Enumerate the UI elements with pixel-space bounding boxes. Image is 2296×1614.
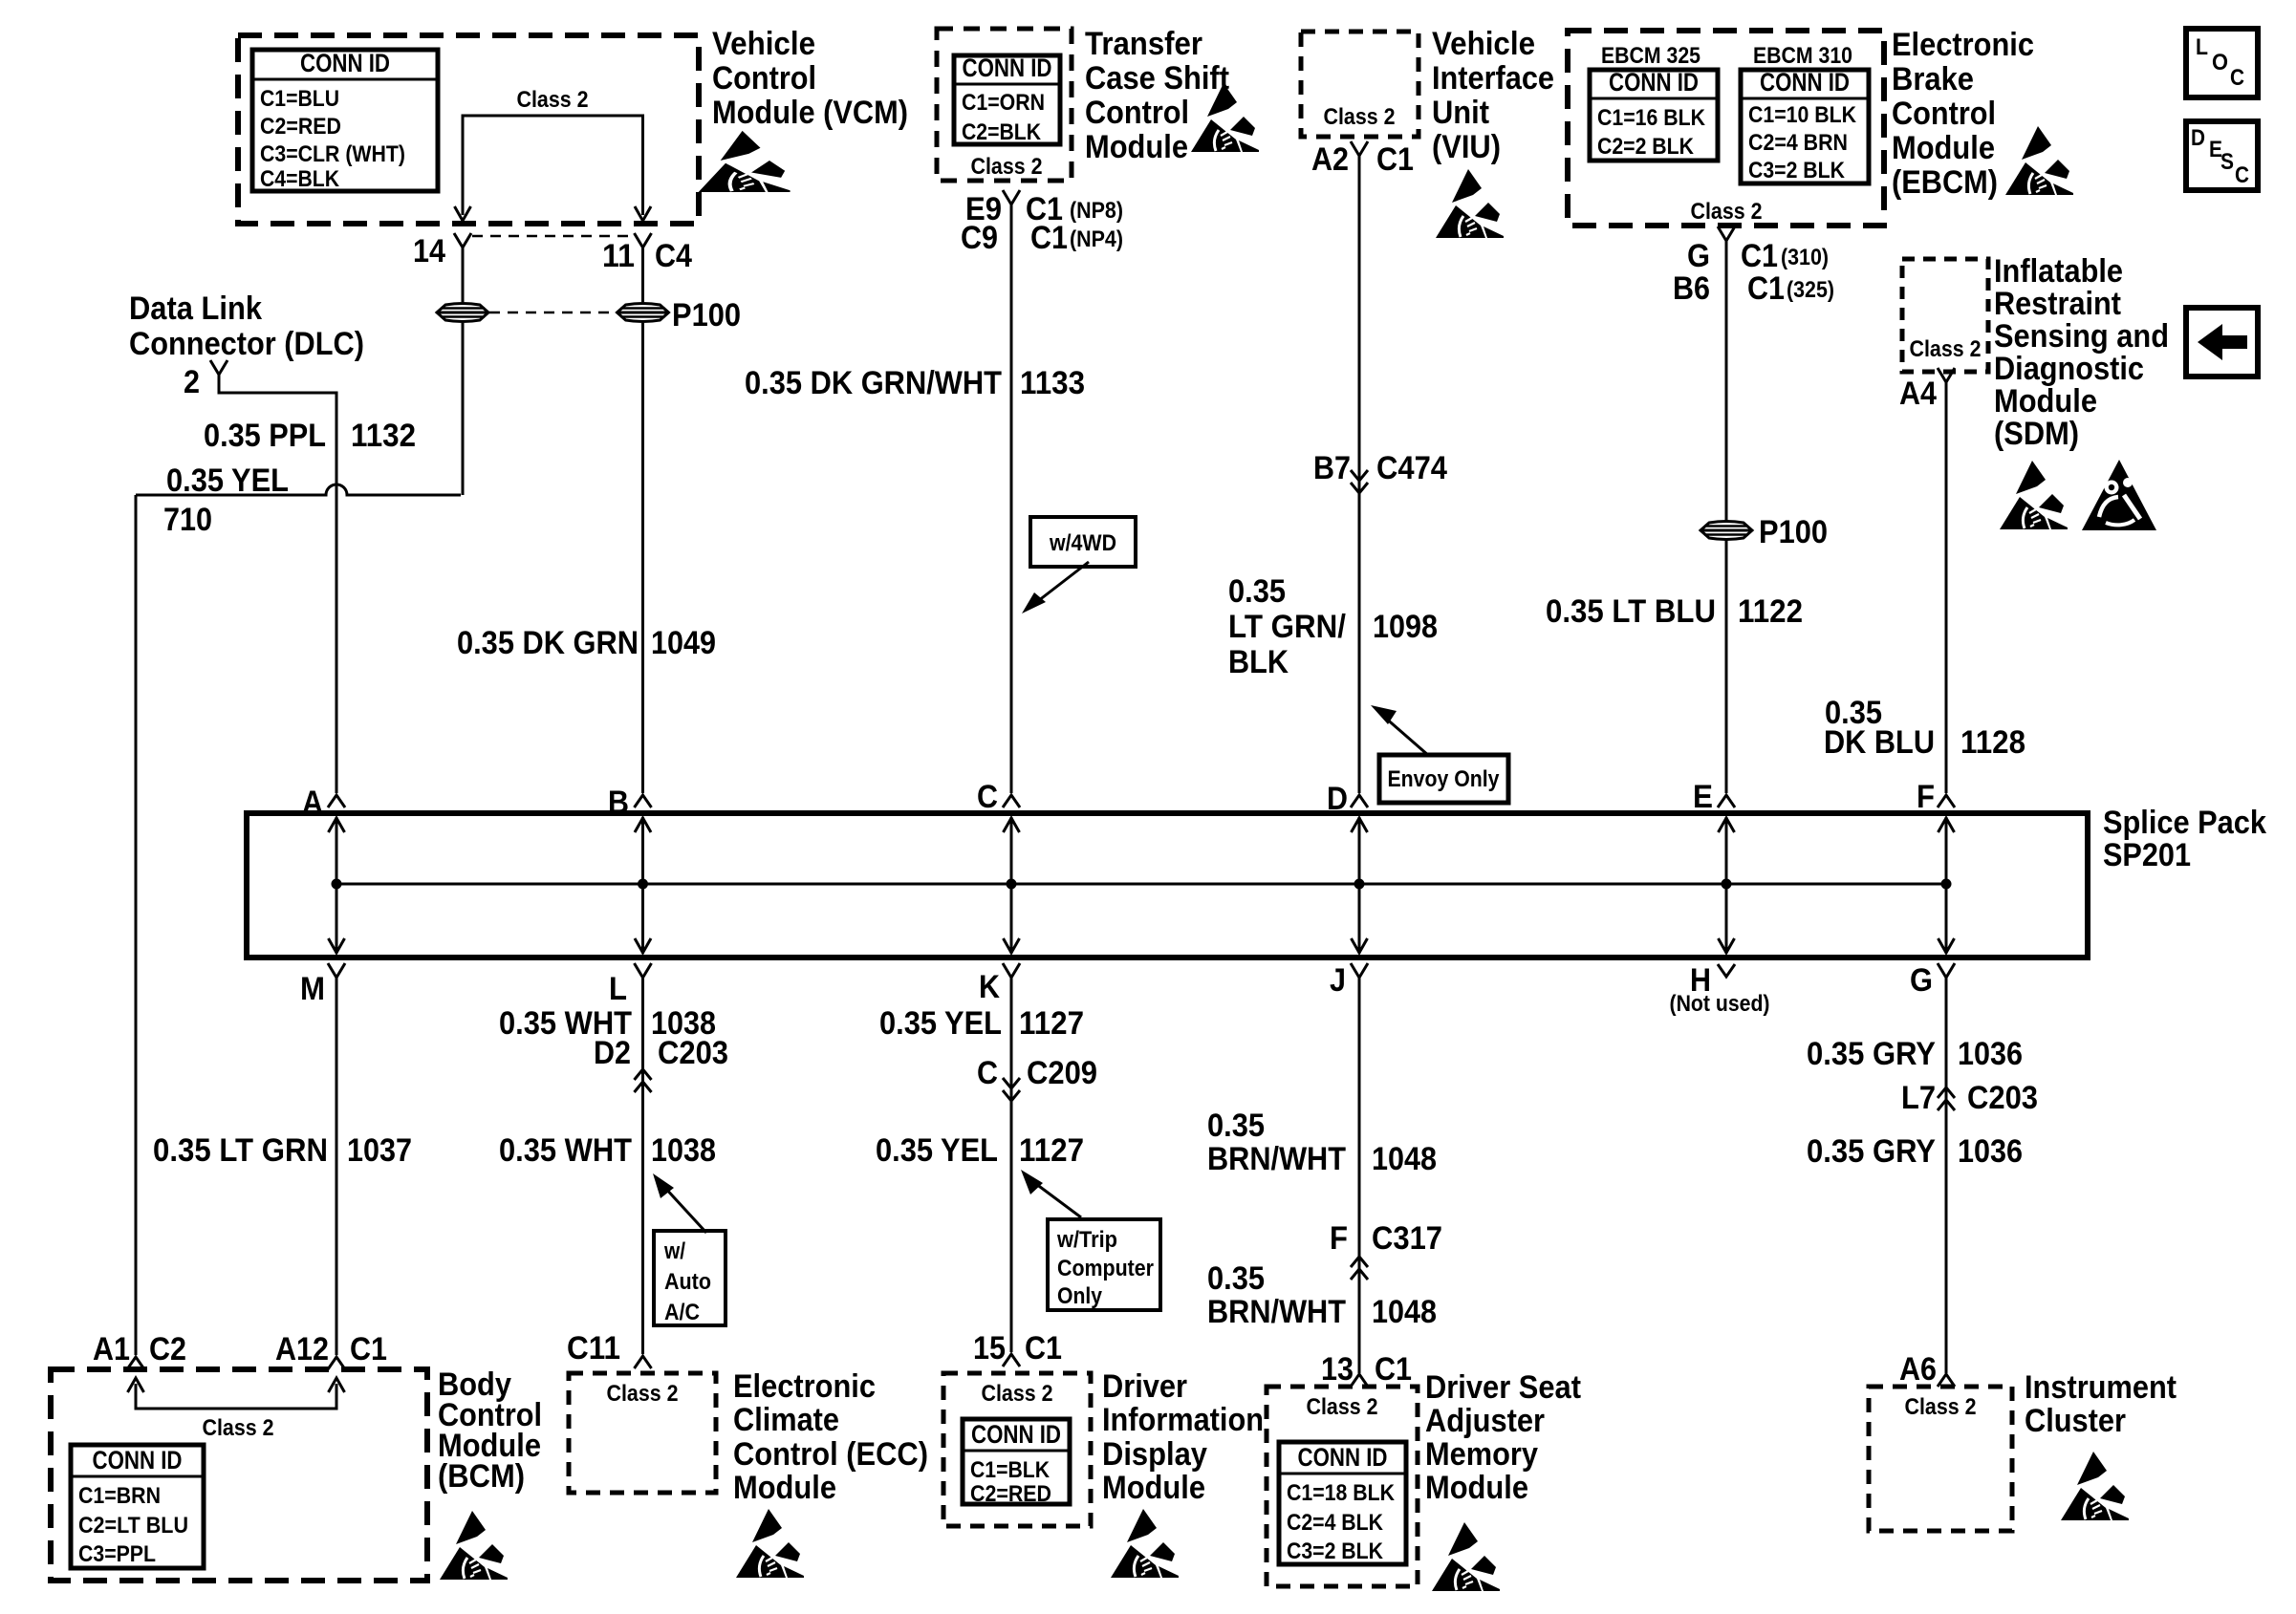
- callout Envoy Only box: [1379, 755, 1508, 803]
- svg-text:C4=BLK: C4=BLK: [260, 166, 340, 192]
- EBCM 325 CONN ID table: [1590, 70, 1718, 161]
- svg-text:(BCM): (BCM): [438, 1458, 525, 1495]
- wire from pin 11 to P100: [641, 249, 644, 302]
- svg-text:1049: 1049: [651, 625, 716, 661]
- svg-text:CONN ID: CONN ID: [963, 54, 1052, 82]
- svg-text:A6: A6: [1899, 1351, 1937, 1388]
- splice node D junction: [1354, 879, 1365, 890]
- svg-text:LT GRN/: LT GRN/: [1228, 609, 1347, 645]
- callout w/Trip Computer Only box: [1048, 1219, 1160, 1310]
- ESD symbol (DID): [1111, 1509, 1179, 1578]
- svg-text:Module: Module: [1425, 1470, 1528, 1506]
- svg-text:C1=ORN: C1=ORN: [962, 90, 1045, 116]
- arrow w/Auto A/C to wire L: [663, 1186, 706, 1233]
- svg-text:Class 2: Class 2: [517, 87, 589, 113]
- svg-text:(310): (310): [1781, 245, 1829, 270]
- svg-text:Computer: Computer: [1057, 1256, 1154, 1281]
- svg-text:1048: 1048: [1372, 1294, 1437, 1330]
- svg-text:Information: Information: [1102, 1402, 1264, 1438]
- splice terminal F: [1938, 795, 1955, 807]
- splice node C junction: [1007, 879, 1017, 890]
- svg-text:1132: 1132: [351, 418, 416, 454]
- svg-text:0.35 PPL: 0.35 PPL: [204, 418, 326, 454]
- svg-text:C9: C9: [961, 220, 998, 256]
- splice node B junction: [638, 879, 648, 890]
- svg-text:Module: Module: [1085, 129, 1188, 165]
- svg-text:D: D: [1327, 781, 1348, 817]
- svg-text:0.35 DK GRN: 0.35 DK GRN: [457, 625, 639, 661]
- svg-text:(VIU): (VIU): [1432, 129, 1501, 165]
- svg-text:B6: B6: [1673, 270, 1710, 307]
- svg-text:A12: A12: [275, 1331, 329, 1367]
- svg-text:C1=BLU: C1=BLU: [260, 86, 339, 112]
- svg-text:0.35 LT GRN: 0.35 LT GRN: [153, 1132, 328, 1169]
- splice terminal D: [1351, 795, 1368, 807]
- svg-text:C11: C11: [567, 1330, 620, 1367]
- svg-text:1128: 1128: [1960, 724, 2025, 761]
- splice terminal J: [1351, 963, 1368, 982]
- wire DK BLU 1128 to splice F: [1945, 384, 1948, 793]
- svg-text:C2: C2: [149, 1331, 186, 1367]
- svg-text:Control: Control: [1085, 95, 1189, 131]
- svg-text:CONN ID: CONN ID: [1609, 68, 1699, 97]
- svg-text:w/4WD: w/4WD: [1049, 530, 1116, 556]
- svg-text:B7: B7: [1313, 450, 1351, 486]
- svg-text:BRN/WHT: BRN/WHT: [1207, 1294, 1346, 1330]
- svg-text:710: 710: [163, 502, 212, 538]
- svg-text:E: E: [1693, 779, 1713, 815]
- svg-text:2: 2: [184, 364, 200, 400]
- svg-text:Module: Module: [1102, 1470, 1205, 1506]
- svg-text:1038: 1038: [651, 1132, 716, 1169]
- connector E9/C1 (transfer case): [1003, 190, 1020, 209]
- svg-text:Display: Display: [1102, 1436, 1207, 1473]
- svg-text:B: B: [608, 785, 629, 821]
- svg-text:11: 11: [602, 238, 635, 274]
- module VCM dashed outline: [238, 35, 699, 224]
- svg-text:0.35 GRY: 0.35 GRY: [1807, 1036, 1936, 1072]
- svg-text:1036: 1036: [1958, 1036, 2023, 1072]
- svg-text:C1: C1: [1025, 1330, 1062, 1367]
- module DID dashed outline: [943, 1373, 1091, 1526]
- wire LT GRN 1037 splice M to BCM A12: [336, 978, 338, 1355]
- module EBCM dashed outline: [1568, 31, 1884, 226]
- svg-text:Diagnostic: Diagnostic: [1994, 351, 2144, 387]
- svg-text:0.35 YEL: 0.35 YEL: [879, 1005, 1002, 1042]
- svg-text:Driver: Driver: [1102, 1368, 1187, 1405]
- svg-text:Splice Pack: Splice Pack: [2103, 805, 2266, 841]
- connector A6 (IC): [1938, 1374, 1955, 1387]
- svg-text:Connector (DLC): Connector (DLC): [129, 326, 364, 362]
- svg-text:C3=2 BLK: C3=2 BLK: [1287, 1539, 1384, 1564]
- svg-text:15: 15: [973, 1330, 1006, 1367]
- svg-text:EBCM 325: EBCM 325: [1601, 43, 1700, 69]
- svg-text:D: D: [2191, 125, 2205, 151]
- callout w/Auto A/C box: [654, 1231, 726, 1325]
- connector A12/C1 (BCM): [328, 1357, 345, 1369]
- connector C11 (ECC): [635, 1356, 652, 1368]
- svg-text:A1: A1: [93, 1331, 130, 1367]
- legend DESC box: [2186, 121, 2258, 190]
- svg-text:w/Trip: w/Trip: [1056, 1227, 1117, 1253]
- ESD symbol (VIU): [1436, 169, 1504, 238]
- svg-text:14: 14: [413, 233, 445, 269]
- svg-text:Brake: Brake: [1892, 61, 1974, 97]
- svg-text:A: A: [302, 785, 323, 821]
- svg-text:C1: C1: [1741, 238, 1778, 274]
- svg-text:Memory: Memory: [1425, 1436, 1538, 1473]
- wire DK GRN 1049 (P100 to splice B): [641, 323, 644, 793]
- wire from P100 left down to YEL junction: [462, 323, 465, 495]
- connector 15/C1 (DID): [1003, 1354, 1020, 1367]
- svg-text:CONN ID: CONN ID: [1760, 68, 1850, 97]
- svg-text:C203: C203: [1967, 1080, 2038, 1116]
- wire PPL 1132 from DLC pin 2 to splice A: [219, 375, 336, 793]
- wire BRN/WHT 1048 splice J to DSA 13: [1358, 978, 1361, 1373]
- svg-text:Adjuster: Adjuster: [1425, 1403, 1545, 1439]
- svg-text:C2=4 BLK: C2=4 BLK: [1287, 1510, 1384, 1536]
- ESD symbol (VCM): [699, 131, 791, 192]
- svg-text:CONN ID: CONN ID: [971, 1420, 1061, 1449]
- wire LT GRN/BLK 1098 to splice D: [1358, 158, 1361, 793]
- svg-text:P100: P100: [1759, 514, 1828, 550]
- svg-text:0.35 LT BLU: 0.35 LT BLU: [1546, 593, 1716, 630]
- svg-text:1048: 1048: [1372, 1141, 1437, 1177]
- svg-text:Sensing and: Sensing and: [1994, 318, 2169, 355]
- splice terminal L: [635, 963, 652, 982]
- arrow w/Trip to wire K: [1032, 1181, 1081, 1217]
- svg-text:J: J: [1330, 962, 1346, 999]
- splice terminal K: [1003, 963, 1020, 982]
- svg-text:Electronic: Electronic: [1892, 27, 2034, 63]
- svg-text:F: F: [1330, 1220, 1348, 1257]
- svg-text:SP201: SP201: [2103, 837, 2191, 873]
- ESD symbol (EBCM): [2005, 126, 2073, 195]
- svg-text:1127: 1127: [1019, 1005, 1084, 1042]
- svg-text:O: O: [2212, 50, 2228, 75]
- ESD symbol (BCM): [440, 1511, 508, 1580]
- svg-text:CONN ID: CONN ID: [93, 1446, 183, 1474]
- svg-text:C2=RED: C2=RED: [970, 1481, 1051, 1507]
- connector 13/C1 (DSA): [1351, 1374, 1368, 1387]
- splice node F junction: [1941, 879, 1952, 890]
- svg-text:C1: C1: [1375, 1351, 1412, 1388]
- svg-text:Instrument: Instrument: [2025, 1369, 2177, 1406]
- module SDM dashed outline: [1902, 259, 1988, 372]
- svg-text:Module: Module: [1994, 383, 2097, 420]
- splice terminal E: [1718, 795, 1735, 807]
- svg-text:A4: A4: [1899, 376, 1937, 412]
- VCM CONN ID table: [252, 50, 438, 191]
- module DSA dashed outline: [1267, 1387, 1418, 1586]
- DID CONN ID table: [963, 1419, 1070, 1504]
- ESD symbol (ECC): [736, 1509, 804, 1578]
- connector DLC pin 2: [210, 360, 227, 379]
- svg-text:(Not used): (Not used): [1670, 991, 1770, 1017]
- svg-text:C1=10 BLK: C1=10 BLK: [1748, 102, 1857, 128]
- svg-text:C1: C1: [1747, 270, 1785, 307]
- svg-text:K: K: [979, 969, 1000, 1005]
- connector P100 (left grommet): [437, 304, 488, 322]
- svg-text:C3=PPL: C3=PPL: [78, 1541, 156, 1567]
- svg-text:0.35: 0.35: [1207, 1260, 1265, 1297]
- svg-text:Control: Control: [712, 60, 816, 97]
- svg-text:1133: 1133: [1020, 365, 1085, 401]
- ESD symbol (SDM): [2000, 461, 2068, 529]
- splice terminal A: [328, 795, 345, 807]
- svg-text:L7: L7: [1901, 1080, 1936, 1116]
- svg-text:C1=16 BLK: C1=16 BLK: [1597, 105, 1706, 131]
- connector P100 on wire E: [1700, 522, 1752, 540]
- connector A1/C2 (BCM): [127, 1357, 144, 1369]
- svg-text:C2=BLK: C2=BLK: [962, 119, 1042, 145]
- svg-text:Class 2: Class 2: [1691, 199, 1763, 225]
- svg-text:(325): (325): [1787, 277, 1834, 303]
- svg-text:0.35 WHT: 0.35 WHT: [499, 1132, 632, 1169]
- wire from pin 14 to P100: [462, 249, 465, 302]
- svg-text:Driver Seat: Driver Seat: [1425, 1369, 1581, 1406]
- wire YEL 710 horizontal with hop over PPL: [136, 484, 461, 495]
- svg-text:(EBCM): (EBCM): [1892, 164, 1998, 201]
- svg-text:Class 2: Class 2: [1324, 104, 1396, 130]
- svg-text:L: L: [2196, 34, 2208, 60]
- airbag symbol (SDM): [2082, 460, 2156, 530]
- svg-text:1098: 1098: [1373, 609, 1438, 645]
- svg-text:C3=2 BLK: C3=2 BLK: [1748, 158, 1846, 183]
- EBCM 310 CONN ID table: [1741, 70, 1869, 183]
- svg-text:Class 2: Class 2: [971, 154, 1043, 180]
- svg-text:Cluster: Cluster: [2025, 1403, 2126, 1439]
- svg-text:C209: C209: [1027, 1055, 1097, 1091]
- svg-text:0.35 GRY: 0.35 GRY: [1807, 1133, 1936, 1170]
- svg-text:L: L: [609, 971, 627, 1007]
- wire LT BLU 1122 to splice E: [1725, 243, 1728, 793]
- svg-text:C2=RED: C2=RED: [260, 114, 341, 140]
- svg-text:C1=18 BLK: C1=18 BLK: [1287, 1480, 1396, 1506]
- splice node A junction: [332, 879, 342, 890]
- svg-text:Climate: Climate: [733, 1402, 839, 1438]
- svg-text:G: G: [1687, 238, 1710, 274]
- wire BCM internal loop: [136, 1384, 336, 1409]
- connector A4 (SDM): [1938, 368, 1955, 387]
- svg-text:Module: Module: [1892, 130, 1995, 166]
- svg-text:C203: C203: [658, 1035, 728, 1071]
- svg-text:Control (ECC): Control (ECC): [733, 1436, 928, 1473]
- svg-text:w/: w/: [663, 1238, 685, 1264]
- svg-text:0.35: 0.35: [1228, 573, 1286, 610]
- svg-text:Interface: Interface: [1432, 60, 1554, 97]
- svg-text:F: F: [1917, 779, 1935, 815]
- svg-text:Inflatable: Inflatable: [1994, 253, 2123, 290]
- ESD symbol (DSA): [1432, 1522, 1500, 1591]
- svg-text:C3=CLR (WHT): C3=CLR (WHT): [260, 141, 405, 167]
- svg-text:Vehicle: Vehicle: [712, 26, 815, 62]
- connector G/C1 B6/C1 (EBCM): [1718, 226, 1735, 246]
- svg-text:0.35 YEL: 0.35 YEL: [166, 463, 289, 499]
- svg-text:Class 2: Class 2: [1910, 336, 1982, 362]
- svg-text:Envoy Only: Envoy Only: [1388, 766, 1501, 792]
- svg-text:(SDM): (SDM): [1994, 416, 2079, 452]
- wire VCM internal loop: [463, 116, 643, 215]
- svg-text:S: S: [2220, 149, 2234, 175]
- svg-text:Case Shift: Case Shift: [1085, 60, 1229, 97]
- ESD symbol (Transfer): [1191, 83, 1259, 152]
- svg-text:Class 2: Class 2: [203, 1415, 274, 1441]
- svg-text:M: M: [300, 971, 325, 1007]
- svg-text:Class 2: Class 2: [607, 1381, 679, 1407]
- svg-text:1127: 1127: [1019, 1132, 1084, 1169]
- svg-text:Electronic: Electronic: [733, 1368, 876, 1405]
- svg-text:Data Link: Data Link: [129, 291, 262, 327]
- svg-text:EBCM 310: EBCM 310: [1753, 43, 1852, 69]
- svg-text:C: C: [977, 779, 998, 815]
- svg-text:0.35: 0.35: [1207, 1108, 1265, 1144]
- wire DK GRN/WHT 1133 to splice C: [1010, 206, 1013, 793]
- svg-text:(NP8): (NP8): [1070, 198, 1123, 224]
- legend back-arrow box: [2186, 308, 2258, 377]
- connector C4 dashed boundary: [472, 235, 633, 238]
- svg-text:Module (VCM): Module (VCM): [712, 95, 908, 131]
- BCM CONN ID table: [71, 1445, 204, 1568]
- svg-text:A/C: A/C: [664, 1300, 700, 1325]
- svg-text:C: C: [2230, 65, 2244, 91]
- svg-text:13: 13: [1321, 1351, 1354, 1388]
- svg-text:0.35 YEL: 0.35 YEL: [876, 1132, 998, 1169]
- splice terminal H (not used): [1718, 964, 1735, 977]
- svg-text:BRN/WHT: BRN/WHT: [1207, 1141, 1346, 1177]
- arrow w/4WD to wire C: [1034, 562, 1089, 604]
- svg-text:C1=BLK: C1=BLK: [970, 1457, 1051, 1483]
- svg-text:C2=LT BLU: C2=LT BLU: [78, 1513, 188, 1539]
- Transfer Case CONN ID table: [954, 55, 1060, 144]
- splice terminal B: [635, 795, 652, 807]
- splice node E junction: [1722, 879, 1732, 890]
- svg-text:1037: 1037: [347, 1132, 412, 1169]
- module BCM dashed outline: [51, 1369, 427, 1581]
- svg-text:Unit: Unit: [1432, 95, 1489, 131]
- svg-text:CONN ID: CONN ID: [300, 49, 390, 77]
- svg-text:Class 2: Class 2: [1905, 1394, 1977, 1420]
- svg-text:C2=2 BLK: C2=2 BLK: [1597, 134, 1695, 160]
- svg-text:C: C: [977, 1055, 998, 1091]
- connector P100 (right grommet): [617, 304, 669, 322]
- callout w/4WD box: [1030, 517, 1136, 567]
- DSA CONN ID table: [1279, 1442, 1406, 1564]
- svg-text:DK BLU: DK BLU: [1824, 724, 1935, 761]
- splice pack internal bus: [336, 883, 1946, 886]
- splice terminal G: [1938, 963, 1955, 982]
- module IC dashed outline: [1869, 1387, 2012, 1531]
- svg-text:Transfer: Transfer: [1085, 26, 1202, 62]
- connector pin 11 (VCM C4): [635, 233, 652, 252]
- svg-text:Class 2: Class 2: [1307, 1394, 1378, 1420]
- connector A2/C1 (VIU): [1351, 141, 1368, 161]
- wire YEL 710 down to BCM A1: [135, 495, 138, 1355]
- arrow Envoy Only to wire D: [1384, 717, 1429, 756]
- svg-text:A2: A2: [1311, 141, 1349, 178]
- svg-text:C1: C1: [1030, 220, 1068, 256]
- module ECC dashed outline: [569, 1373, 716, 1493]
- svg-text:C2=4 BRN: C2=4 BRN: [1748, 130, 1848, 156]
- svg-text:Only: Only: [1057, 1283, 1103, 1309]
- legend LOC box: [2186, 29, 2258, 97]
- svg-text:Auto: Auto: [664, 1269, 711, 1295]
- svg-text:(NP4): (NP4): [1070, 226, 1123, 252]
- module VIU dashed outline: [1301, 32, 1419, 137]
- svg-text:C1: C1: [1376, 141, 1414, 178]
- svg-text:C1=BRN: C1=BRN: [78, 1483, 161, 1509]
- splice terminal M: [328, 963, 345, 982]
- wire WHT 1038 splice L to ECC C11: [641, 978, 644, 1354]
- svg-text:Class 2: Class 2: [982, 1381, 1053, 1407]
- svg-text:P100: P100: [672, 297, 741, 334]
- svg-text:C317: C317: [1372, 1220, 1442, 1257]
- svg-text:1122: 1122: [1738, 593, 1803, 630]
- wire GRY 1036 splice G to IC A6: [1945, 978, 1948, 1373]
- svg-text:C474: C474: [1376, 450, 1447, 486]
- connector pin 14 (VCM C4): [454, 233, 471, 252]
- svg-text:CONN ID: CONN ID: [1298, 1443, 1388, 1472]
- svg-text:Module: Module: [733, 1470, 836, 1506]
- svg-text:BLK: BLK: [1228, 644, 1289, 680]
- P100 dashed link: [489, 312, 616, 314]
- svg-text:Control: Control: [1892, 96, 1996, 132]
- svg-text:C1: C1: [350, 1331, 387, 1367]
- svg-text:Vehicle: Vehicle: [1432, 26, 1535, 62]
- svg-text:C4: C4: [655, 238, 692, 274]
- svg-text:0.35 DK GRN/WHT: 0.35 DK GRN/WHT: [745, 365, 1002, 401]
- svg-text:C: C: [2235, 162, 2249, 188]
- ESD symbol (IC): [2061, 1452, 2129, 1520]
- splice terminal C: [1003, 795, 1020, 807]
- splice pack SP201 box: [247, 813, 2088, 958]
- module Transfer Case Shift Control dashed outline: [937, 29, 1072, 181]
- svg-text:Restraint: Restraint: [1994, 286, 2121, 322]
- wire YEL 1127 splice K to DID 15: [1010, 978, 1013, 1352]
- svg-text:G: G: [1910, 962, 1933, 999]
- svg-text:D2: D2: [594, 1035, 631, 1071]
- svg-text:1036: 1036: [1958, 1133, 2023, 1170]
